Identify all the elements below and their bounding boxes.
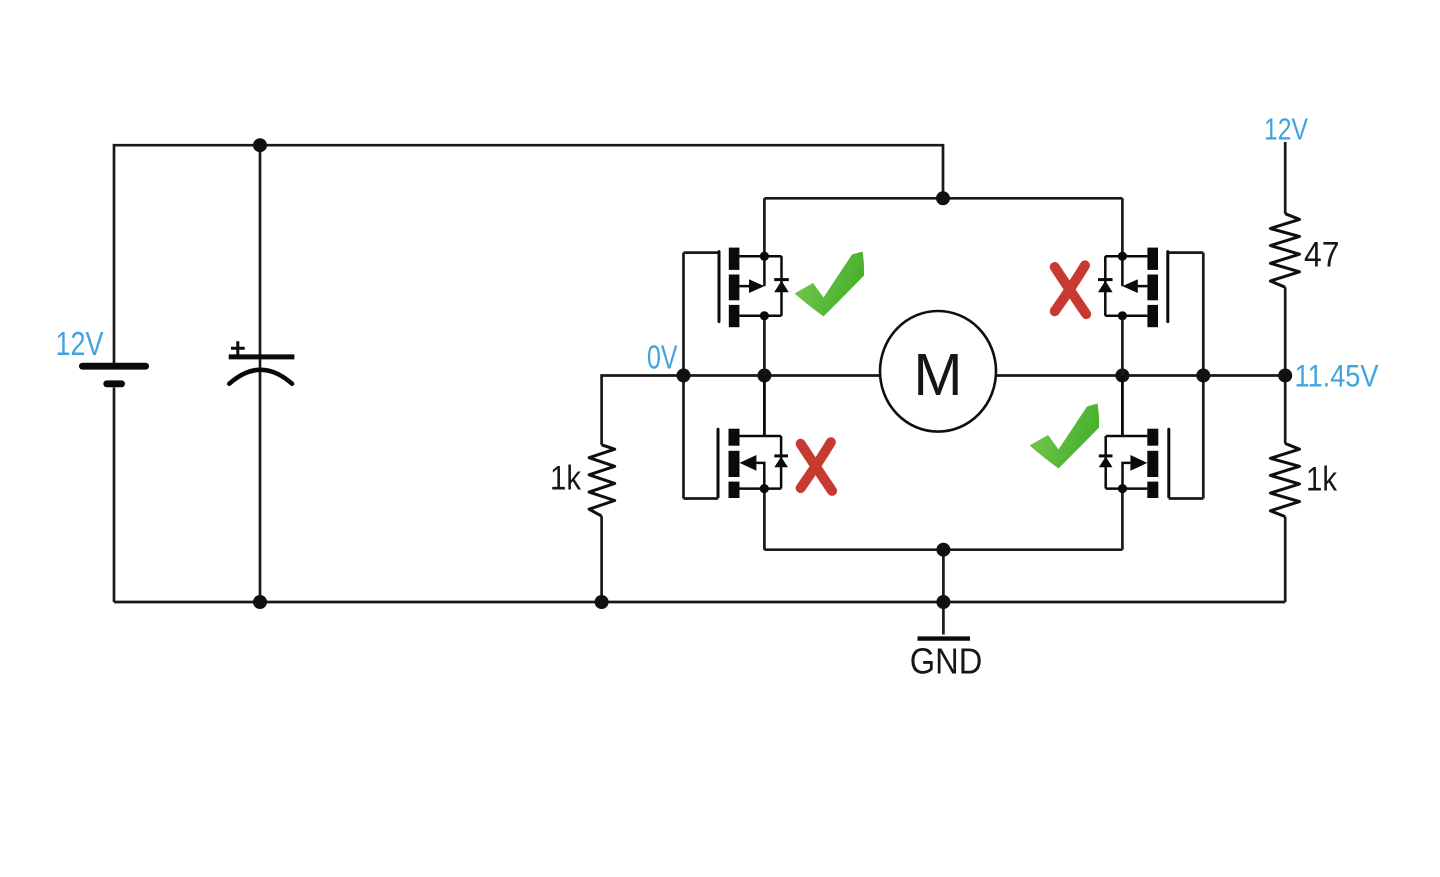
svg-text:M: M (913, 342, 962, 408)
wire bridge top (764, 197, 1122, 200)
motor M1 (880, 311, 996, 432)
junction dot 11.45V node (1278, 369, 1292, 383)
svg-text:11.45V: 11.45V (1295, 358, 1379, 394)
wire left 1k resistor bottom (600, 516, 603, 602)
junction dot top cap (253, 138, 267, 152)
junction dot bottom cap (253, 595, 267, 609)
wire motor left (684, 374, 881, 377)
wire bridge bottom (764, 548, 1122, 551)
junction dot bridge bottom (936, 543, 950, 557)
svg-text:12V: 12V (56, 326, 105, 363)
svg-text:0V: 0V (647, 338, 678, 375)
X mark lower-left (red) (801, 442, 833, 491)
svg-text:47: 47 (1304, 235, 1340, 275)
wire right chain bottom (1284, 517, 1287, 602)
svg-text:1k: 1k (550, 460, 582, 498)
junction dot bridge feed (936, 191, 950, 205)
resistor R3 1k right bottom (1270, 444, 1299, 517)
wire right chain top (1284, 142, 1287, 214)
check mark upper-left (green) (795, 252, 865, 317)
wire bottom rail (114, 601, 1285, 604)
X mark upper-right (red) (1055, 265, 1087, 314)
battery V1 12V (82, 363, 145, 370)
capacitor C1 polarized (229, 354, 295, 359)
junction dot bottom gnd (936, 595, 950, 609)
wire battery bottom (113, 388, 116, 603)
wire capacitor branch (259, 145, 262, 602)
wire ground feed (942, 550, 945, 635)
wire left 1k resistor to 0V node (602, 376, 684, 445)
check mark lower-right (green) (1030, 404, 1100, 469)
wire top rail from battery to bridge feed (114, 145, 943, 363)
svg-text:1k: 1k (1306, 460, 1338, 498)
junction dot bottom 1k (595, 595, 609, 609)
resistor R1 1k left (589, 445, 615, 516)
wire motor right to 11.45V node (996, 374, 1285, 377)
svg-text:12V: 12V (1264, 112, 1309, 146)
transistors Q1/Q2 left half-bridge with gate bracket (677, 198, 789, 549)
wire right chain between resistors (1284, 287, 1287, 443)
ground symbol (918, 636, 971, 640)
transistors Q3/Q4 right half-bridge (mirrored) (1098, 198, 1210, 549)
svg-text:GND: GND (910, 641, 983, 682)
resistor R2 47 right top (1270, 214, 1299, 288)
